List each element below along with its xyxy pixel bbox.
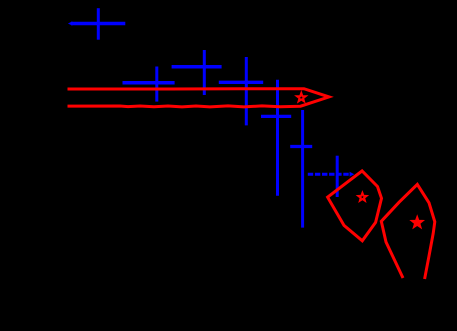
data point 2 (blue cross)	[123, 67, 175, 102]
red contour: elongated region (open at left)	[68, 89, 330, 107]
data point 5 (blue cross)	[261, 80, 291, 196]
red contour: kite region 1 (closed)	[328, 171, 382, 241]
arrowhead left on point 1	[68, 21, 72, 25]
red contour: kite region 2 (open at bottom)	[381, 184, 435, 279]
data point 6 (blue cross)	[290, 110, 312, 228]
best-fit star inside elongated region	[297, 93, 306, 101]
best-fit star inside kite region 1	[358, 193, 366, 201]
data point 3 (blue cross)	[172, 50, 222, 95]
best-fit star inside kite region 2 (filled)	[412, 217, 422, 227]
data point 4 (blue cross)	[219, 57, 263, 125]
data point 7 (blue cross, dashed right-arrow limit)	[308, 156, 350, 197]
data point 1 (blue cross, left arrow limit)	[71, 8, 125, 40]
arrowhead right on point 7	[350, 172, 355, 177]
